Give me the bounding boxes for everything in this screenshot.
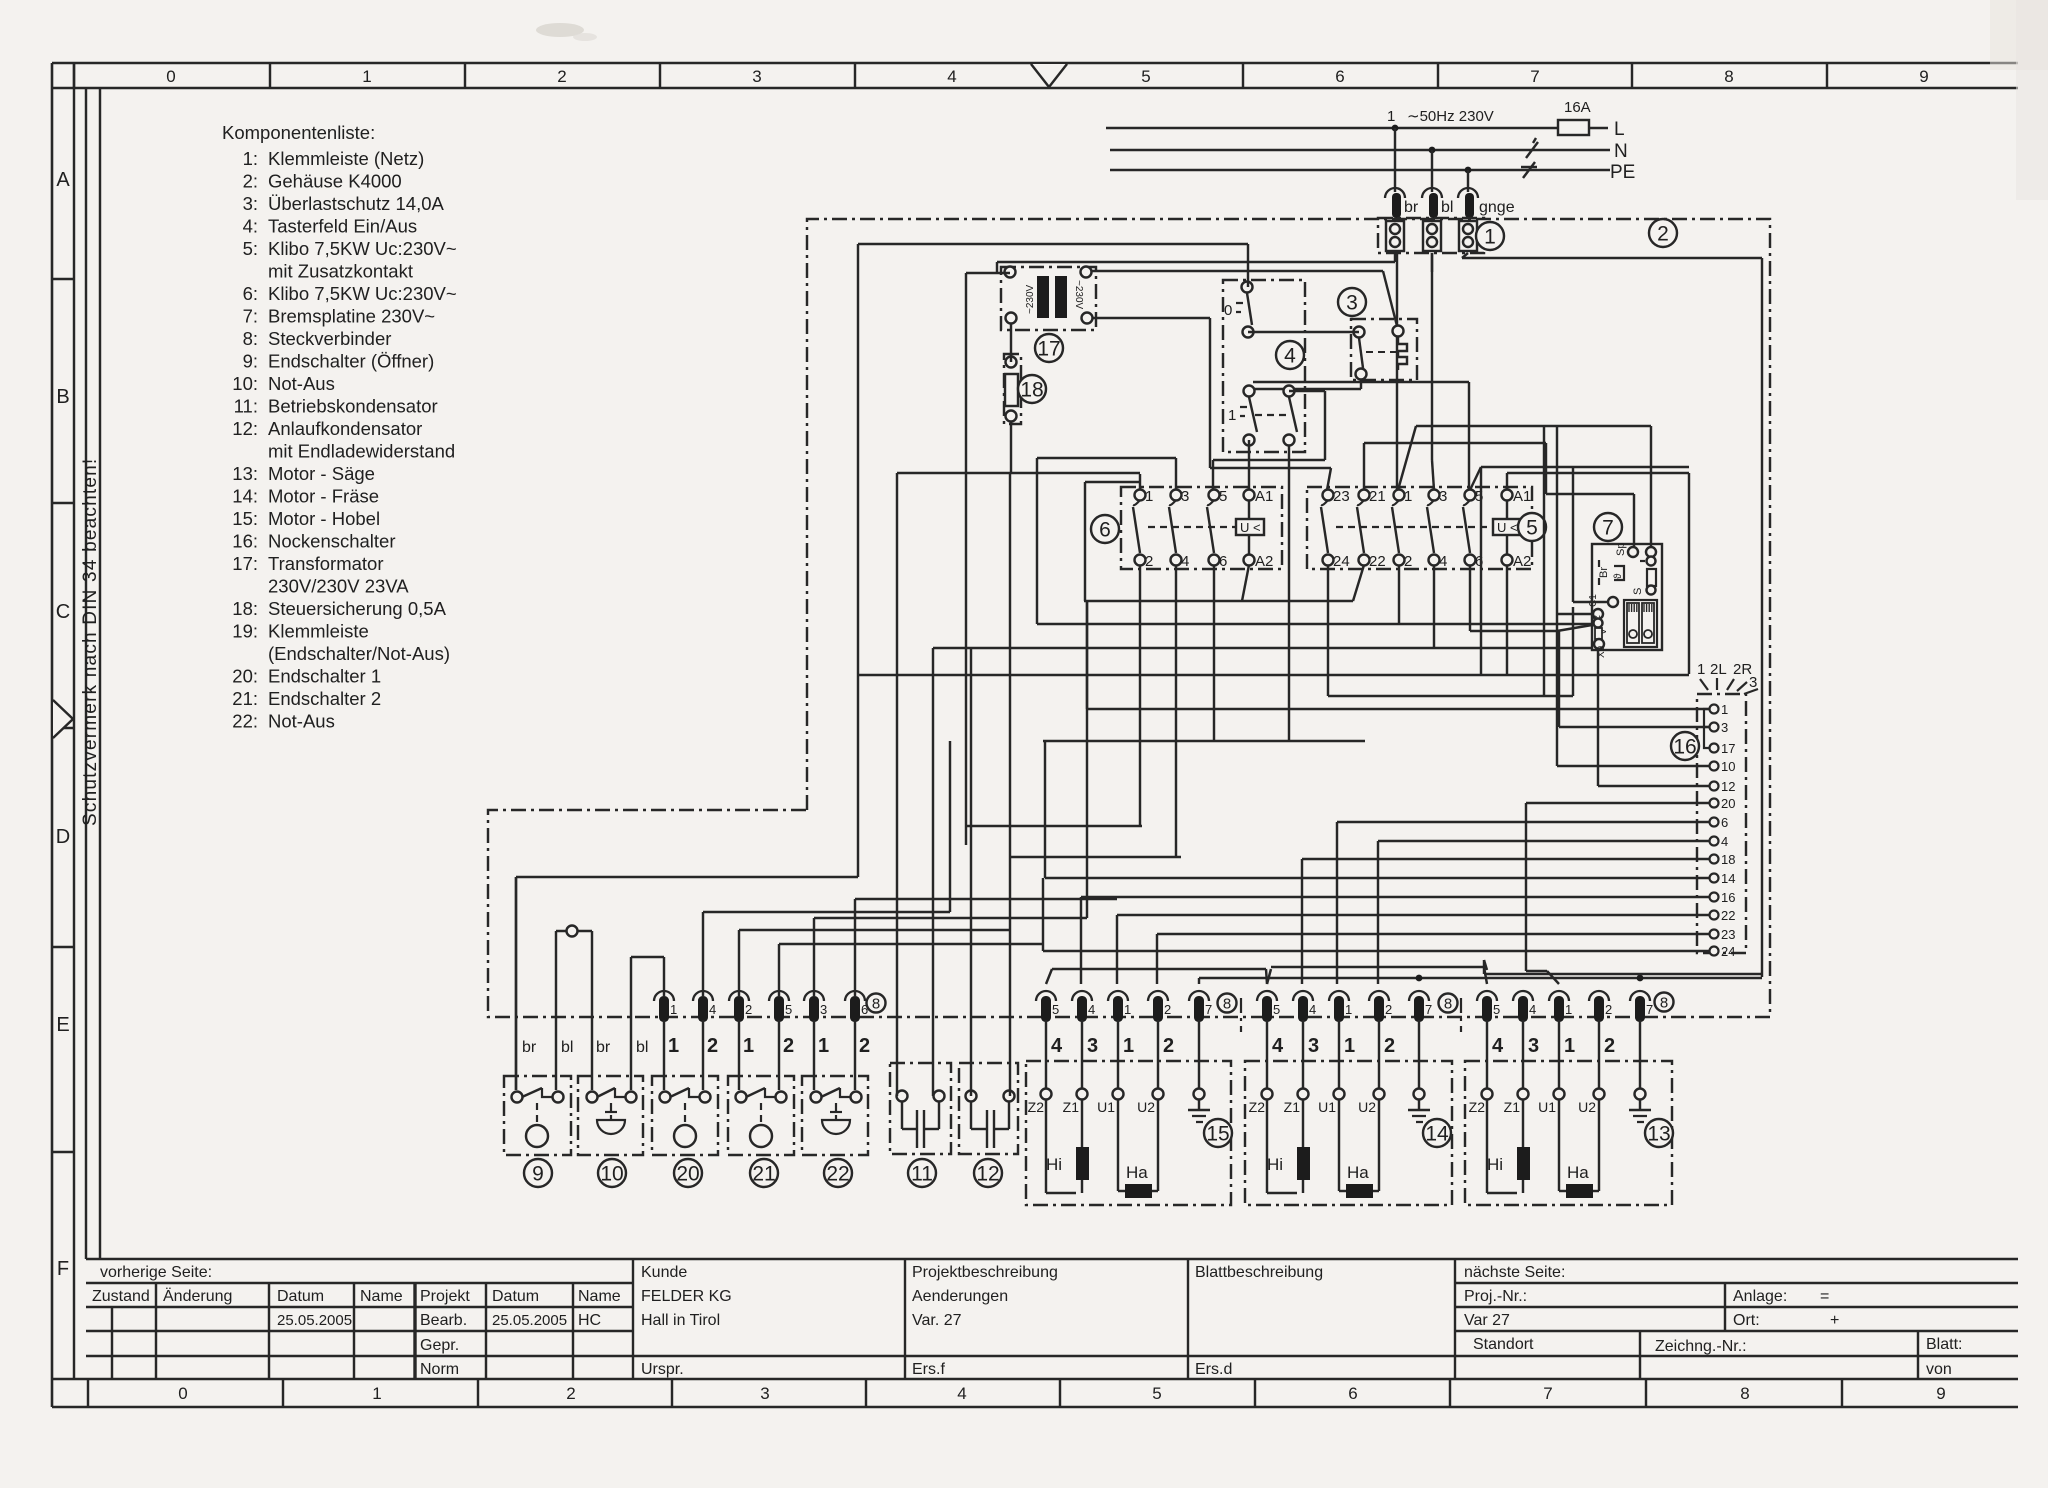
svg-text:U1: U1 bbox=[1318, 1099, 1336, 1115]
svg-text:0: 0 bbox=[1224, 302, 1232, 319]
svg-text:Blattbeschreibung: Blattbeschreibung bbox=[1195, 1264, 1323, 1281]
svg-text:Komponentenliste:: Komponentenliste: bbox=[222, 122, 375, 143]
svg-text:21:: 21: bbox=[232, 688, 258, 709]
svg-text:8: 8 bbox=[1724, 67, 1733, 86]
svg-text:Ha: Ha bbox=[1126, 1163, 1148, 1182]
wire cam t14 bbox=[1045, 741, 1710, 878]
component list Komponentenliste bbox=[222, 122, 457, 732]
wire contactor6 T1 riser bbox=[1139, 474, 1141, 490]
svg-text:20: 20 bbox=[1721, 796, 1735, 811]
svg-text:Z2: Z2 bbox=[1028, 1099, 1045, 1115]
svg-text:2: 2 bbox=[1604, 1035, 1615, 1057]
wire bl continues down bbox=[1431, 253, 1433, 272]
wire brake L2 link bbox=[1557, 426, 1593, 766]
svg-text:Betriebskondensator: Betriebskondensator bbox=[268, 396, 438, 417]
svg-text:Hall in Tirol: Hall in Tirol bbox=[641, 1312, 720, 1329]
svg-text:6: 6 bbox=[1348, 1384, 1357, 1403]
svg-text:Tasterfeld Ein/Aus: Tasterfeld Ein/Aus bbox=[268, 216, 417, 237]
wire transformer secondary? to overload bbox=[1092, 271, 1397, 326]
svg-text:4: 4 bbox=[1492, 1035, 1504, 1057]
svg-text:B: B bbox=[56, 386, 69, 408]
svg-text:A1: A1 bbox=[1255, 488, 1273, 505]
svg-text:22: 22 bbox=[1721, 908, 1735, 923]
svg-text:7: 7 bbox=[1205, 1002, 1212, 1017]
wire cam t3 bbox=[1559, 631, 1710, 727]
transformer T1 component 17 bbox=[1001, 267, 1096, 331]
svg-text:3: 3 bbox=[1181, 488, 1189, 505]
scan shading top right bbox=[1990, 0, 2048, 200]
svg-text:Ers.f: Ers.f bbox=[912, 1361, 945, 1378]
svg-text:6:: 6: bbox=[243, 283, 258, 304]
svg-text:Änderung: Änderung bbox=[163, 1287, 232, 1305]
pushbutton panel component 4 Tasterfeld Ein/Aus bbox=[1223, 280, 1305, 452]
label circle 7 bbox=[1594, 513, 1622, 541]
svg-text:4: 4 bbox=[1051, 1035, 1063, 1057]
brake board component 7 Bremsplatine bbox=[1588, 543, 1662, 658]
svg-text:4: 4 bbox=[1272, 1035, 1284, 1057]
svg-text:Hi: Hi bbox=[1267, 1155, 1283, 1174]
wire pushbutton 1a top to contactor5 T5 bbox=[1253, 382, 1469, 490]
svg-text:C: C bbox=[56, 601, 70, 623]
svg-text:8: 8 bbox=[1223, 995, 1231, 1012]
wire contactor5 T2 drop bbox=[1398, 565, 1400, 624]
svg-text:Var 27: Var 27 bbox=[1464, 1312, 1510, 1329]
svg-text:Ha: Ha bbox=[1567, 1163, 1589, 1182]
svg-text:1: 1 bbox=[1484, 225, 1496, 248]
svg-text:10: 10 bbox=[600, 1162, 623, 1185]
wire bus 631 link bbox=[1470, 625, 1592, 631]
emergency stop S22 Not-Aus component 22 bbox=[802, 1076, 868, 1155]
svg-text:9: 9 bbox=[532, 1162, 544, 1185]
svg-text:U1: U1 bbox=[1097, 1099, 1115, 1115]
svg-text:2: 2 bbox=[707, 1035, 718, 1057]
ground symbol motor M2 bbox=[1408, 1100, 1430, 1122]
svg-text:2: 2 bbox=[1163, 1035, 1174, 1057]
svg-text:3: 3 bbox=[1528, 1035, 1539, 1057]
svg-text:5:: 5: bbox=[243, 238, 258, 259]
svg-text:1: 1 bbox=[668, 1035, 679, 1057]
svg-text:A: A bbox=[56, 169, 70, 191]
wire cam t6 bbox=[1337, 822, 1710, 984]
wire cam t20 bbox=[1526, 803, 1710, 984]
wire contactor5 T24 drop bbox=[1328, 565, 1573, 696]
svg-text:3: 3 bbox=[1087, 1035, 1098, 1057]
wire pushbutton 1b top to contactor6 T5 bbox=[1213, 391, 1325, 490]
svg-text:1: 1 bbox=[1387, 108, 1395, 125]
svg-text:1: 1 bbox=[1564, 1035, 1575, 1057]
svg-text:Ers.d: Ers.d bbox=[1195, 1361, 1232, 1378]
wire PE chain pins 7 bbox=[1199, 975, 1762, 984]
svg-text:8: 8 bbox=[1660, 994, 1668, 1011]
svg-text:17:: 17: bbox=[232, 553, 258, 574]
svg-text:S: S bbox=[1632, 588, 1644, 595]
svg-text:Datum: Datum bbox=[492, 1288, 539, 1305]
svg-text:Klemmleiste: Klemmleiste bbox=[268, 621, 369, 642]
wire overload bottom to pushbutton panel bbox=[1250, 379, 1361, 389]
scan smudge bbox=[536, 23, 597, 41]
svg-text:25.05.2005: 25.05.2005 bbox=[492, 1312, 567, 1329]
svg-text:2: 2 bbox=[1384, 1035, 1395, 1057]
label circle 16 bbox=[1671, 732, 1699, 760]
wire PE return bottom bbox=[1484, 960, 1762, 974]
svg-text:7: 7 bbox=[1530, 67, 1539, 86]
label circle 12 bbox=[974, 1159, 1002, 1187]
svg-text:Z2: Z2 bbox=[1469, 1099, 1486, 1115]
svg-text:22: 22 bbox=[1369, 553, 1386, 570]
svg-text:17: 17 bbox=[1037, 337, 1060, 360]
svg-text:C1: C1 bbox=[1588, 594, 1599, 607]
svg-text:Projekt: Projekt bbox=[420, 1288, 470, 1305]
wire contactor6 T2 drop bbox=[966, 565, 1142, 826]
svg-text:bl: bl bbox=[636, 1039, 648, 1056]
run capacitor C11 Betriebskondensator component 11 bbox=[890, 1063, 951, 1154]
svg-text:4: 4 bbox=[1529, 1002, 1536, 1017]
label circle 22 bbox=[824, 1159, 852, 1187]
svg-text:6: 6 bbox=[1219, 553, 1227, 570]
labels wire numbers above motor connectors bbox=[1051, 1035, 1615, 1057]
wire cam t1 bbox=[1087, 601, 1710, 709]
svg-text:Schutzvermerk nach DIN 34 beac: Schutzvermerk nach DIN 34 beachten! bbox=[80, 458, 101, 826]
svg-text:U <: U < bbox=[1240, 520, 1261, 535]
svg-text:Sp: Sp bbox=[1615, 543, 1627, 556]
svg-text:Klibo 7,5KW Uc:230V~: Klibo 7,5KW Uc:230V~ bbox=[268, 283, 457, 304]
wire transformer primary feed left bbox=[966, 273, 1010, 845]
svg-text:Not-Aus: Not-Aus bbox=[268, 711, 335, 732]
svg-text:1: 1 bbox=[1124, 1002, 1131, 1017]
svg-text:+: + bbox=[1830, 1312, 1839, 1329]
terminal strip X1 (Klemmleiste Netz) component 1 bbox=[1378, 218, 1484, 253]
svg-text:4: 4 bbox=[1088, 1002, 1095, 1017]
svg-text:Z1: Z1 bbox=[1063, 1099, 1080, 1115]
svg-text:8: 8 bbox=[1740, 1384, 1749, 1403]
svg-text:2: 2 bbox=[566, 1384, 575, 1403]
svg-text:Datum: Datum bbox=[277, 1288, 324, 1305]
svg-text:∼50Hz 230V: ∼50Hz 230V bbox=[1407, 108, 1494, 125]
svg-text:gnge: gnge bbox=[1479, 199, 1515, 216]
svg-text:4: 4 bbox=[957, 1384, 966, 1403]
wire cam t4 bbox=[1378, 841, 1710, 984]
svg-text:6: 6 bbox=[1335, 67, 1344, 86]
svg-text:N: N bbox=[1614, 141, 1628, 162]
wire cam t10 bbox=[1557, 765, 1710, 767]
svg-text:25.05.2005: 25.05.2005 bbox=[277, 1312, 352, 1329]
svg-text:Aenderungen: Aenderungen bbox=[912, 1288, 1008, 1305]
svg-text:Zustand: Zustand bbox=[92, 1288, 150, 1305]
svg-text:1: 1 bbox=[1721, 702, 1728, 717]
svg-text:A2: A2 bbox=[1255, 553, 1273, 570]
wire pin5 riser bbox=[779, 944, 1043, 997]
wire contactor5 T5 aux riser bbox=[1470, 426, 1689, 696]
wire bus 648 to brake X9 bbox=[933, 648, 1592, 1096]
svg-text:U2: U2 bbox=[1578, 1099, 1596, 1115]
svg-text:Z1: Z1 bbox=[1504, 1099, 1521, 1115]
svg-text:Motor - Säge: Motor - Säge bbox=[268, 463, 375, 484]
svg-text:0: 0 bbox=[166, 67, 175, 86]
svg-text:Bearb.: Bearb. bbox=[420, 1312, 467, 1329]
label circle 2 (Gehaeuse K4000) bbox=[1649, 219, 1677, 247]
svg-text:3: 3 bbox=[1721, 720, 1728, 735]
svg-text:14:: 14: bbox=[232, 486, 258, 507]
label circle 6 bbox=[1091, 515, 1119, 543]
svg-text:1: 1 bbox=[1565, 1002, 1572, 1017]
svg-text:Zeichng.-Nr.:: Zeichng.-Nr.: bbox=[1655, 1338, 1747, 1355]
label circle 8 group B bbox=[1439, 994, 1458, 1013]
connector hook br bbox=[1385, 188, 1419, 218]
title block bbox=[86, 1259, 2018, 1379]
svg-text:1: 1 bbox=[1404, 488, 1412, 505]
svg-text:4:: 4: bbox=[243, 216, 258, 237]
svg-text:Blatt:: Blatt: bbox=[1926, 1336, 1962, 1353]
wire contactor6 T4 drop bbox=[1010, 565, 1181, 857]
label circle 10 bbox=[598, 1159, 626, 1187]
svg-text:Not-Aus: Not-Aus bbox=[268, 373, 335, 394]
svg-text:5: 5 bbox=[1219, 488, 1227, 505]
svg-text:F: F bbox=[57, 1258, 69, 1280]
wire PE lead to right spine bbox=[1462, 253, 1762, 258]
svg-text:Klibo 7,5KW Uc:230V~: Klibo 7,5KW Uc:230V~ bbox=[268, 238, 457, 259]
svg-text:Klemmleiste (Netz): Klemmleiste (Netz) bbox=[268, 148, 424, 169]
svg-text:5: 5 bbox=[1273, 1002, 1280, 1017]
svg-text:3: 3 bbox=[1308, 1035, 1319, 1057]
wire switch9 to stop-button loop bbox=[516, 244, 1248, 1090]
label circle 17 bbox=[1035, 334, 1063, 362]
svg-text:Anlage:: Anlage: bbox=[1733, 1288, 1787, 1305]
wire bl wire to switch10 bbox=[631, 957, 664, 1090]
svg-text:19:: 19: bbox=[232, 621, 258, 642]
svg-text:12: 12 bbox=[976, 1162, 999, 1185]
svg-text:18: 18 bbox=[1020, 378, 1043, 401]
svg-text:10: 10 bbox=[1721, 759, 1735, 774]
label circle 5 bbox=[1518, 513, 1546, 541]
svg-text:4: 4 bbox=[1309, 1002, 1316, 1017]
svg-text:3: 3 bbox=[760, 1384, 769, 1403]
limit switch S21 Endschalter 2 component 21 bbox=[728, 1076, 794, 1155]
contactor K2 component 6 Klibo bbox=[1121, 487, 1282, 570]
svg-text:Name: Name bbox=[578, 1288, 621, 1305]
labels wire numbers above limit switches bbox=[522, 1035, 870, 1057]
wire cam t22 bbox=[1117, 915, 1710, 984]
wire transformer secondary right bbox=[1092, 318, 1331, 490]
svg-text:~230V: ~230V bbox=[1025, 284, 1036, 314]
svg-text:Motor - Fräse: Motor - Fräse bbox=[268, 486, 379, 507]
svg-text:20: 20 bbox=[676, 1162, 699, 1185]
svg-text:7: 7 bbox=[1646, 1002, 1653, 1017]
svg-text:PE: PE bbox=[1610, 162, 1635, 183]
svg-text:Var. 27: Var. 27 bbox=[912, 1312, 962, 1329]
svg-text:U1: U1 bbox=[1538, 1099, 1556, 1115]
svg-text:A1: A1 bbox=[1513, 488, 1531, 505]
svg-text:4: 4 bbox=[709, 1002, 716, 1017]
svg-text:Anlaufkondensator: Anlaufkondensator bbox=[268, 418, 422, 439]
wire motor15 pin drops bbox=[1046, 1020, 1199, 1088]
svg-text:16: 16 bbox=[1721, 890, 1735, 905]
limit switch S9 Endschalter component 9 bbox=[504, 1076, 571, 1155]
svg-text:U <: U < bbox=[1497, 520, 1518, 535]
svg-text:1: 1 bbox=[1345, 1002, 1352, 1017]
connector X2 Steckverbinder group left component 8 bbox=[654, 991, 868, 1022]
wire PE drop gnge bbox=[1467, 170, 1469, 192]
svg-text:5: 5 bbox=[785, 1002, 792, 1017]
svg-text:Norm: Norm bbox=[420, 1361, 459, 1378]
svg-text:U2: U2 bbox=[1137, 1099, 1155, 1115]
svg-text:16:: 16: bbox=[232, 531, 258, 552]
svg-text:1: 1 bbox=[1145, 488, 1153, 505]
label circle 15 bbox=[1204, 1119, 1232, 1147]
wire contactor5 T6 drop bbox=[1469, 565, 1471, 631]
wire contactor6 T6 drop bbox=[1213, 565, 1215, 741]
svg-text:8: 8 bbox=[872, 995, 880, 1012]
svg-text:21: 21 bbox=[752, 1162, 775, 1185]
wire chain pin5 groups B-C bbox=[1267, 967, 1487, 984]
svg-text:Nockenschalter: Nockenschalter bbox=[268, 531, 396, 552]
svg-text:Gehäuse K4000: Gehäuse K4000 bbox=[268, 171, 402, 192]
svg-text:11: 11 bbox=[911, 1162, 933, 1185]
svg-text:Kunde: Kunde bbox=[641, 1264, 687, 1281]
motor M1 Saege component 13 bbox=[1465, 1061, 1672, 1205]
wire pin6 riser bbox=[855, 899, 1117, 997]
svg-text:2: 2 bbox=[1657, 222, 1669, 245]
svg-text:Z1: Z1 bbox=[1284, 1099, 1301, 1115]
wire PE spine right bbox=[1761, 258, 1763, 977]
wire contactor5 T4 drop bbox=[1433, 565, 1435, 648]
svg-text:1:: 1: bbox=[243, 148, 258, 169]
svg-text:vorherige Seite:: vorherige Seite: bbox=[100, 1264, 212, 1281]
svg-text:Steuersicherung 0,5A: Steuersicherung 0,5A bbox=[268, 598, 447, 619]
wire brake Sp2 riser bbox=[1398, 426, 1651, 547]
svg-text:8: 8 bbox=[1444, 995, 1452, 1012]
svg-text:24: 24 bbox=[1333, 553, 1350, 570]
svg-text:br: br bbox=[596, 1039, 611, 1056]
wire left riser 1010 bbox=[1009, 473, 1011, 1096]
svg-text:22: 22 bbox=[826, 1162, 849, 1185]
overload relay component 3 Ueberlastschutz bbox=[1351, 319, 1417, 380]
svg-text:(Endschalter/Not-Aus): (Endschalter/Not-Aus) bbox=[268, 643, 450, 664]
svg-text:2: 2 bbox=[1404, 553, 1412, 570]
svg-text:13: 13 bbox=[1647, 1122, 1670, 1145]
node L tap bbox=[1392, 125, 1399, 132]
label circle 20 bbox=[674, 1159, 702, 1187]
svg-text:mit Endladewiderstand: mit Endladewiderstand bbox=[268, 441, 455, 462]
svg-text:U2: U2 bbox=[1358, 1099, 1376, 1115]
wire cam t12 bbox=[1598, 649, 1710, 786]
svg-text:Gepr.: Gepr. bbox=[420, 1337, 459, 1354]
ground symbol motor M1 bbox=[1629, 1100, 1651, 1122]
wire brake C1 link bbox=[1573, 467, 1608, 602]
start capacitor C12 Anlaufkondensator component 12 bbox=[959, 1063, 1018, 1154]
emergency stop S10 Not-Aus component 10 bbox=[578, 1076, 643, 1155]
svg-text:Endschalter 1: Endschalter 1 bbox=[268, 666, 381, 687]
svg-text:von: von bbox=[1926, 1361, 1952, 1378]
wire bus 675 across bbox=[857, 674, 1689, 676]
motor M3 Hobel component 15 bbox=[1026, 1061, 1231, 1205]
svg-text:23: 23 bbox=[1333, 488, 1350, 505]
svg-text:bl: bl bbox=[561, 1039, 573, 1056]
svg-text:E: E bbox=[56, 1014, 69, 1036]
svg-text:3: 3 bbox=[1346, 291, 1358, 314]
svg-text:8:: 8: bbox=[243, 328, 258, 349]
svg-text:ϑ: ϑ bbox=[1613, 573, 1624, 579]
svg-text:21: 21 bbox=[1369, 488, 1386, 505]
node PE tap bbox=[1465, 167, 1472, 174]
wire bl drop to contactor5 T3 bbox=[1432, 253, 1434, 490]
label circle 3 bbox=[1338, 288, 1366, 316]
svg-text:5: 5 bbox=[1493, 1002, 1500, 1017]
svg-text:1: 1 bbox=[670, 1002, 677, 1017]
svg-text:br: br bbox=[1404, 199, 1419, 216]
svg-text:L: L bbox=[1614, 119, 1625, 140]
wire bus 624 to brake V bbox=[1037, 623, 1592, 625]
wire transformer secondary left to fuse bbox=[1010, 323, 1012, 362]
svg-text:2: 2 bbox=[557, 67, 566, 86]
label circle 9 bbox=[524, 1159, 552, 1187]
contactor K1 component 5 Klibo mit Zusatzkontakt bbox=[1307, 487, 1532, 570]
svg-text:Endschalter (Öffner): Endschalter (Öffner) bbox=[268, 351, 434, 372]
svg-text:15:: 15: bbox=[232, 508, 258, 529]
svg-text:mit Zusatzkontakt: mit Zusatzkontakt bbox=[268, 261, 413, 282]
label circle 4 bbox=[1276, 341, 1304, 369]
svg-text:Endschalter 2: Endschalter 2 bbox=[268, 688, 381, 709]
svg-text:A2: A2 bbox=[1513, 553, 1531, 570]
svg-text:2: 2 bbox=[1145, 553, 1153, 570]
svg-text:6: 6 bbox=[1721, 815, 1728, 830]
wire N drop bl bbox=[1431, 150, 1433, 192]
label circle 14 bbox=[1423, 1119, 1451, 1147]
svg-text:16A: 16A bbox=[1564, 99, 1591, 116]
svg-text:7: 7 bbox=[1425, 1002, 1432, 1017]
svg-text:4: 4 bbox=[1721, 834, 1728, 849]
wire node row 473 bbox=[897, 472, 1140, 474]
svg-text:Ha: Ha bbox=[1347, 1163, 1369, 1182]
svg-text:9: 9 bbox=[1936, 1384, 1945, 1403]
svg-text:Bremsplatine 230V~: Bremsplatine 230V~ bbox=[268, 306, 435, 327]
wire motor14 pin drops bbox=[1267, 1020, 1419, 1088]
svg-text:Standort: Standort bbox=[1473, 1336, 1534, 1353]
svg-text:2: 2 bbox=[745, 1002, 752, 1017]
svg-text:4: 4 bbox=[1284, 344, 1296, 367]
svg-text:22:: 22: bbox=[232, 711, 258, 732]
motor M2 Fraese component 14 bbox=[1245, 1061, 1452, 1205]
svg-text:3: 3 bbox=[820, 1002, 827, 1017]
wire br to transformer primary bbox=[997, 253, 1395, 273]
wire switch9 bridge switch10 bbox=[556, 926, 592, 1091]
svg-text:Name: Name bbox=[360, 1288, 403, 1305]
svg-text:Hi: Hi bbox=[1046, 1155, 1062, 1174]
wire cam t16 bbox=[1081, 897, 1710, 984]
label circle 8 group C bbox=[1655, 993, 1674, 1012]
svg-text:5: 5 bbox=[1052, 1002, 1059, 1017]
wire contactor5 A1 loop bbox=[1507, 473, 1689, 674]
svg-text:17: 17 bbox=[1721, 741, 1735, 756]
label circle 13 bbox=[1645, 1119, 1673, 1147]
label circle 11 bbox=[908, 1159, 936, 1187]
svg-text:3:: 3: bbox=[243, 193, 258, 214]
wire 0-button to overload bbox=[1248, 331, 1359, 333]
svg-text:1: 1 bbox=[743, 1035, 754, 1057]
node N tap bbox=[1429, 147, 1436, 154]
wire cam t18 bbox=[1302, 859, 1710, 984]
svg-text:16: 16 bbox=[1673, 735, 1696, 758]
svg-text:Motor - Hobel: Motor - Hobel bbox=[268, 508, 380, 529]
wire brake Sp riser bbox=[1364, 443, 1634, 547]
svg-text:10:: 10: bbox=[232, 373, 258, 394]
svg-text:11:: 11: bbox=[234, 396, 258, 417]
wire overload to contactor5 T1 bbox=[1396, 336, 1398, 490]
svg-text:23: 23 bbox=[1721, 927, 1735, 942]
svg-text:0: 0 bbox=[178, 1384, 187, 1403]
svg-text:Urspr.: Urspr. bbox=[641, 1361, 684, 1378]
wire cam t23 bbox=[1157, 934, 1710, 984]
connector X3 Steckverbinder group A component 8 bbox=[1036, 991, 1212, 1022]
